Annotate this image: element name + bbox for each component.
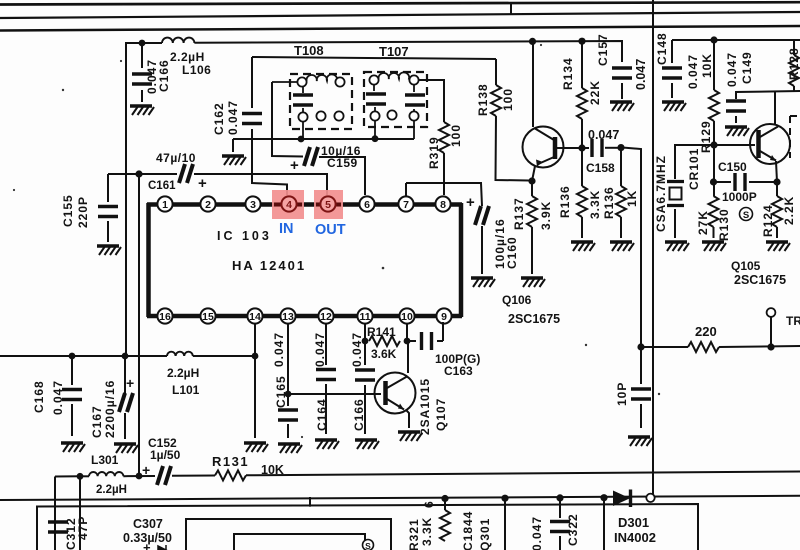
svg-text:C159: C159 [327, 156, 358, 170]
svg-text:S: S [743, 210, 749, 221]
svg-text:0.047: 0.047 [588, 128, 619, 142]
svg-text:6: 6 [364, 199, 370, 211]
svg-text:C163: C163 [444, 364, 473, 378]
svg-text:2.2µH: 2.2µH [167, 366, 199, 380]
svg-text:+: + [290, 157, 299, 174]
svg-text:C149: C149 [740, 51, 754, 84]
svg-text:S: S [365, 541, 371, 550]
svg-text:0.047: 0.047 [686, 54, 700, 89]
svg-text:R129: R129 [699, 120, 713, 153]
svg-text:2.2µH: 2.2µH [170, 50, 205, 64]
svg-text:C157: C157 [596, 33, 610, 66]
svg-text:C162: C162 [212, 102, 226, 135]
svg-text:C322: C322 [566, 513, 580, 546]
svg-text:100: 100 [501, 88, 515, 111]
svg-text:T107: T107 [379, 44, 409, 59]
svg-text:HA 12401: HA 12401 [232, 258, 306, 273]
svg-text:0.047: 0.047 [530, 516, 544, 550]
svg-text:100: 100 [449, 124, 463, 147]
svg-text:16: 16 [159, 311, 171, 323]
svg-text:IN: IN [279, 221, 294, 237]
svg-text:3.9K: 3.9K [539, 201, 553, 230]
svg-text:6: 6 [422, 500, 436, 508]
svg-text:27K: 27K [696, 210, 710, 235]
svg-text:C1844: C1844 [461, 511, 475, 550]
svg-text:L106: L106 [182, 63, 211, 77]
svg-text:0.047: 0.047 [226, 100, 240, 135]
svg-text:Q106: Q106 [502, 293, 532, 307]
svg-text:11: 11 [359, 311, 370, 323]
svg-text:Q107: Q107 [434, 398, 448, 431]
svg-text:1000P: 1000P [722, 190, 757, 204]
svg-text:10K: 10K [261, 463, 284, 477]
svg-text:R134: R134 [561, 57, 575, 90]
svg-text:10K: 10K [700, 53, 714, 78]
svg-text:0.047: 0.047 [313, 332, 327, 367]
svg-text:2.2µH: 2.2µH [96, 484, 127, 496]
svg-text:R136: R136 [558, 185, 572, 218]
svg-text:+: + [142, 462, 150, 478]
svg-text:7: 7 [403, 199, 409, 211]
svg-text:C166: C166 [352, 398, 366, 431]
svg-text:1K: 1K [625, 190, 639, 207]
svg-text:2: 2 [205, 199, 211, 211]
svg-text:C155: C155 [61, 194, 75, 227]
svg-text:+: + [126, 375, 134, 391]
svg-text:R128: R128 [787, 47, 800, 80]
svg-text:C166: C166 [157, 59, 171, 92]
svg-text:D301: D301 [618, 515, 649, 530]
svg-text:T108: T108 [294, 43, 324, 58]
svg-text:14: 14 [249, 311, 261, 323]
svg-text:0.047: 0.047 [350, 332, 364, 367]
svg-text:R130: R130 [717, 208, 731, 241]
svg-text:13: 13 [282, 311, 294, 323]
svg-text:+: + [143, 540, 151, 550]
svg-text:3.3K: 3.3K [588, 190, 602, 219]
svg-text:R131: R131 [212, 454, 249, 469]
svg-text:R124: R124 [761, 204, 775, 237]
svg-text:0.047: 0.047 [51, 380, 65, 415]
svg-text:L101: L101 [172, 383, 200, 397]
svg-text:IN4002: IN4002 [614, 530, 656, 545]
svg-text:10: 10 [401, 311, 413, 323]
svg-text:4: 4 [286, 199, 292, 211]
svg-text:C160: C160 [505, 236, 519, 269]
svg-text:12: 12 [320, 311, 332, 323]
svg-text:2200µ/16: 2200µ/16 [103, 380, 117, 438]
svg-text:CR101: CR101 [687, 148, 701, 190]
svg-text:8: 8 [440, 199, 446, 211]
svg-text:1µ/50: 1µ/50 [150, 448, 181, 462]
svg-text:C165: C165 [274, 375, 288, 408]
svg-text:C150: C150 [718, 160, 747, 174]
svg-text:C307: C307 [133, 517, 163, 531]
svg-text:R141: R141 [367, 325, 396, 339]
svg-text:Q301: Q301 [478, 518, 492, 550]
svg-text:C164: C164 [315, 398, 329, 431]
svg-text:IC 103: IC 103 [217, 229, 272, 243]
svg-text:R321: R321 [407, 518, 421, 550]
svg-text:C158: C158 [586, 161, 615, 175]
svg-text:0.047: 0.047 [725, 52, 739, 87]
svg-text:R319: R319 [427, 136, 441, 169]
svg-text:47P: 47P [76, 516, 90, 540]
svg-text:47µ/10: 47µ/10 [156, 151, 196, 165]
svg-text:TR: TR [786, 314, 800, 328]
svg-text:3.3K: 3.3K [420, 517, 434, 546]
svg-text:2SC1675: 2SC1675 [508, 312, 560, 326]
svg-text:15: 15 [202, 311, 214, 323]
svg-text:3.6K: 3.6K [371, 347, 397, 361]
svg-text:Q105: Q105 [731, 259, 761, 273]
svg-text:3: 3 [250, 199, 256, 211]
svg-text:2SA1015: 2SA1015 [418, 378, 432, 435]
svg-text:22K: 22K [588, 80, 602, 105]
svg-text:0.047: 0.047 [634, 59, 648, 90]
svg-text:OUT: OUT [315, 222, 346, 238]
svg-text:CSA6.7MHZ: CSA6.7MHZ [654, 155, 668, 232]
svg-text:R136: R136 [602, 186, 616, 219]
svg-text:C161: C161 [148, 180, 176, 192]
svg-text:9: 9 [441, 311, 447, 323]
svg-text:5: 5 [325, 199, 331, 211]
svg-text:1: 1 [162, 199, 168, 211]
svg-text:C168: C168 [32, 380, 46, 413]
svg-text:2SC1675: 2SC1675 [734, 273, 786, 287]
svg-text:R137: R137 [512, 197, 526, 230]
svg-text:0.047: 0.047 [272, 332, 286, 367]
svg-text:R138: R138 [476, 83, 490, 116]
svg-text:2.2K: 2.2K [782, 196, 796, 225]
svg-text:10P: 10P [615, 382, 629, 406]
svg-text:+: + [198, 175, 207, 192]
svg-text:C148: C148 [655, 32, 669, 65]
svg-text:L301: L301 [91, 453, 119, 467]
svg-text:220P: 220P [76, 196, 90, 228]
svg-text:C167: C167 [90, 405, 104, 438]
svg-text:220: 220 [695, 324, 717, 339]
svg-text:+: + [466, 194, 475, 211]
